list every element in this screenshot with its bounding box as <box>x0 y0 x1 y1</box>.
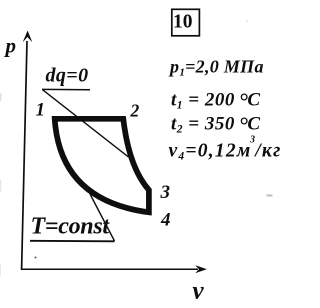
svg-text:2: 2 <box>130 101 140 121</box>
scan speckles <box>0 20 273 276</box>
svg-text:t1 = 200 °С: t1 = 200 °С <box>171 89 261 114</box>
svg-text:10: 10 <box>173 12 193 33</box>
p axis <box>22 31 32 269</box>
leader line from isotherm 4-1 to T=const <box>90 194 115 241</box>
v axis <box>21 266 207 273</box>
svg-text:v: v <box>193 278 205 305</box>
svg-text:1: 1 <box>36 100 46 121</box>
svg-text:3: 3 <box>160 182 171 203</box>
problem number box <box>172 9 200 36</box>
dq=0 underline <box>42 88 90 90</box>
svg-text:dq=0: dq=0 <box>46 65 89 87</box>
cycle outline: isobar 1-2, adiabat 2-3, isochore 3-4, isotherm 4-1 <box>55 119 149 213</box>
leader line from dq=0 to adiabat 2-3 <box>43 90 129 157</box>
svg-text:4: 4 <box>160 210 171 231</box>
svg-text:t2 = 350 °С: t2 = 350 °С <box>171 113 261 138</box>
T=const underline <box>30 240 115 243</box>
svg-text:p: p <box>4 34 17 58</box>
svg-text:T=const: T=const <box>31 214 111 240</box>
